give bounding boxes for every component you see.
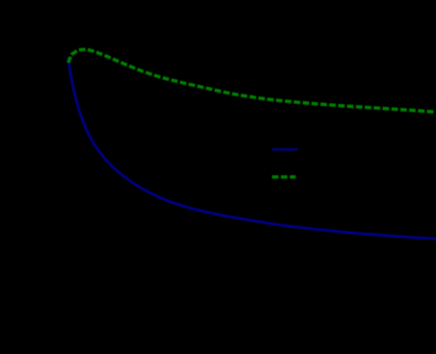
blue solid curve: [68, 58, 436, 239]
legend blue line sample: [272, 148, 298, 150]
legend green dashed sample: [272, 175, 296, 178]
green dashed curve: [68, 49, 436, 112]
